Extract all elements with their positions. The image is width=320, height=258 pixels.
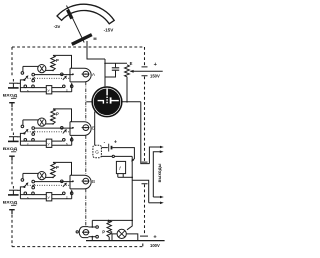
resistor P4 bottom lead bbox=[108, 237, 110, 241]
wire G lower down to bottom section bbox=[131, 156, 133, 220]
meter needle thick tip bbox=[68, 10, 72, 19]
input connector chassis bar bbox=[8, 87, 19, 89]
connector pair circles S2 bbox=[63, 85, 66, 88]
resistor P1 bbox=[51, 55, 55, 70]
meter needle bbox=[67, 6, 85, 43]
lamp L4 left lead bbox=[112, 234, 117, 241]
resistor P4 bbox=[107, 220, 111, 237]
switch K1b bottom contact bbox=[32, 79, 35, 82]
channel lower wire right bbox=[52, 91, 72, 93]
switch K1a top contact bbox=[21, 72, 24, 75]
wire battery to arrow bbox=[112, 148, 134, 161]
svg-text:У: У bbox=[47, 88, 50, 93]
jack contact wire 1 bbox=[88, 226, 95, 228]
tube V1 cathode lead wire bbox=[94, 112, 96, 146]
battery B1 long plate bbox=[108, 144, 110, 152]
svg-text:выходы: выходы bbox=[157, 163, 162, 182]
svg-text:м: м bbox=[93, 36, 96, 41]
lamp L1 bbox=[38, 65, 46, 73]
wire down to jack contacts bbox=[91, 220, 93, 227]
mechanical link dotted bbox=[25, 77, 70, 79]
junction dot contact 2 bbox=[91, 236, 93, 238]
wire hook to lamp bbox=[127, 220, 132, 229]
output arrow 3 bbox=[153, 196, 161, 198]
input connector stem bbox=[12, 83, 14, 87]
input connector pin bbox=[12, 79, 14, 82]
tube top lead wire bbox=[104, 59, 106, 86]
shield box boundary bars at 150V crossing bbox=[142, 67, 148, 76]
switch K1c pivot dot bbox=[72, 73, 74, 75]
channel 1 bbox=[3, 55, 91, 107]
svg-text:В: В bbox=[92, 179, 95, 185]
channel upper wire left bbox=[20, 87, 46, 89]
switch K1a feed wire bbox=[22, 66, 24, 71]
wire G to battery bbox=[101, 147, 107, 149]
channel upper wire right bbox=[52, 87, 63, 89]
wire F legs to bus bbox=[118, 176, 132, 178]
switch K1b blade bbox=[33, 77, 35, 79]
svg-text:100V: 100V bbox=[150, 243, 160, 248]
chassis tee on shield edge bbox=[9, 102, 15, 104]
switch K1a blade bbox=[25, 77, 27, 80]
wire contact 2 to rail bbox=[91, 237, 93, 241]
output arrow 1 bbox=[149, 147, 161, 164]
wire to relay with up arrow bbox=[71, 84, 73, 92]
junction dot contact 1 bbox=[91, 226, 93, 228]
switch K1c blade bbox=[63, 77, 66, 80]
capacitor C plates bbox=[112, 68, 119, 70]
tube V1 envelope (black disk) bbox=[91, 86, 122, 117]
junction dot anode/resistor bbox=[126, 101, 128, 103]
tube V1 cathode (white) bbox=[98, 101, 104, 104]
output arrow 2 bbox=[153, 152, 161, 197]
shield box boundary bars at outputs crossing bbox=[142, 162, 148, 184]
relay box bbox=[70, 68, 91, 82]
svg-text:Е: Е bbox=[130, 61, 133, 66]
shield box dashed right edge bbox=[143, 47, 145, 247]
lamp L1 right wire bbox=[46, 69, 53, 71]
jack D core bbox=[83, 230, 88, 235]
jack D shell bbox=[79, 227, 88, 238]
channel top wire bbox=[53, 55, 72, 68]
meter M scale arc bbox=[57, 4, 114, 24]
filter F box bbox=[116, 161, 125, 173]
shield box dashed top edge bbox=[12, 46, 145, 48]
connector pair circles S1 bbox=[24, 85, 27, 88]
shield box boundary bar above 100V rail bbox=[140, 235, 148, 237]
lamp L4 right lead bbox=[126, 234, 138, 241]
svg-text:Р: Р bbox=[102, 229, 105, 234]
meter pivot bar bbox=[72, 35, 92, 45]
capacitor C top lead bbox=[115, 63, 117, 67]
svg-text:-2v: -2v bbox=[54, 24, 61, 29]
jack contact circle 1 bbox=[96, 226, 99, 229]
junction dot bbox=[131, 220, 133, 222]
resistor P4 wiper arrow bbox=[110, 230, 113, 233]
channel lower wire left bbox=[20, 91, 46, 93]
junction dot F bus bbox=[131, 177, 133, 179]
shield box dashed left edge bbox=[11, 47, 13, 247]
+150V supply wire bbox=[131, 70, 163, 72]
output arrow 4 bbox=[149, 202, 162, 204]
battery B1 short plate bbox=[111, 146, 113, 150]
arrowhead at resistor top bbox=[107, 219, 110, 222]
filter F legs bbox=[118, 174, 123, 178]
lamp feed wire bbox=[23, 65, 38, 67]
generator G dashed box bbox=[93, 145, 102, 158]
resistor E bbox=[125, 65, 130, 77]
svg-text:+: + bbox=[114, 139, 117, 145]
tube V1 anode bar (white) bbox=[110, 97, 112, 103]
junction dot resistor/lamp wire bbox=[52, 70, 54, 72]
svg-text:-15V: -15V bbox=[104, 28, 115, 33]
jack contact circle 2 bbox=[96, 235, 99, 238]
input connector bar bbox=[9, 82, 18, 84]
capacitor C bottom lead bbox=[105, 71, 116, 77]
tube V1 inner ring bbox=[93, 88, 120, 115]
switch K1a pivot dot bbox=[23, 79, 25, 81]
relay core symbol bbox=[83, 71, 89, 77]
+150V arrowhead bbox=[130, 70, 134, 73]
tube V1 grid (white dashed) bbox=[106, 89, 108, 96]
+100V rail bbox=[86, 240, 165, 242]
input signal hook wire bbox=[20, 80, 24, 92]
node junction dot bbox=[104, 63, 106, 65]
resistor E bottom lead wire bbox=[126, 77, 128, 102]
svg-text:Р: Р bbox=[56, 58, 59, 63]
input bar stub wire bbox=[17, 82, 20, 84]
wire meter to circuit bbox=[87, 41, 105, 59]
jack contact wire 2 bbox=[88, 236, 95, 238]
channel 3 bbox=[3, 162, 91, 214]
wire top rail bbox=[105, 62, 127, 64]
svg-text:ВХОД: ВХОД bbox=[3, 93, 18, 98]
junction terminal circle bbox=[112, 155, 114, 157]
resistor P1 wiper arrow bbox=[50, 65, 53, 68]
lamp L4 bbox=[117, 229, 126, 238]
svg-text:150V: 150V bbox=[150, 74, 160, 79]
wire anode to output 1 bbox=[141, 102, 150, 164]
channel 2 bbox=[3, 109, 91, 161]
bottom section top wire bbox=[92, 219, 132, 221]
amplifier U box bbox=[46, 86, 52, 94]
input return stub bbox=[11, 97, 16, 99]
tube V1 right lead wire bbox=[122, 101, 140, 103]
switch K1b top contact bbox=[32, 73, 35, 76]
wire G lower bbox=[101, 155, 132, 157]
shield box dashed bottom edge bbox=[12, 246, 143, 248]
switch chain link line bbox=[85, 82, 87, 227]
switch K1b wire bbox=[35, 74, 73, 76]
switch K1c contact bbox=[61, 73, 64, 76]
svg-text:Б: Б bbox=[92, 126, 95, 132]
svg-text:G: G bbox=[95, 150, 99, 155]
jack D side terminal bbox=[76, 231, 78, 233]
tube V1 anode lead (white) bbox=[111, 100, 119, 102]
tube V1 left lead wire bbox=[86, 101, 91, 103]
wire to output 4 bbox=[132, 180, 149, 203]
